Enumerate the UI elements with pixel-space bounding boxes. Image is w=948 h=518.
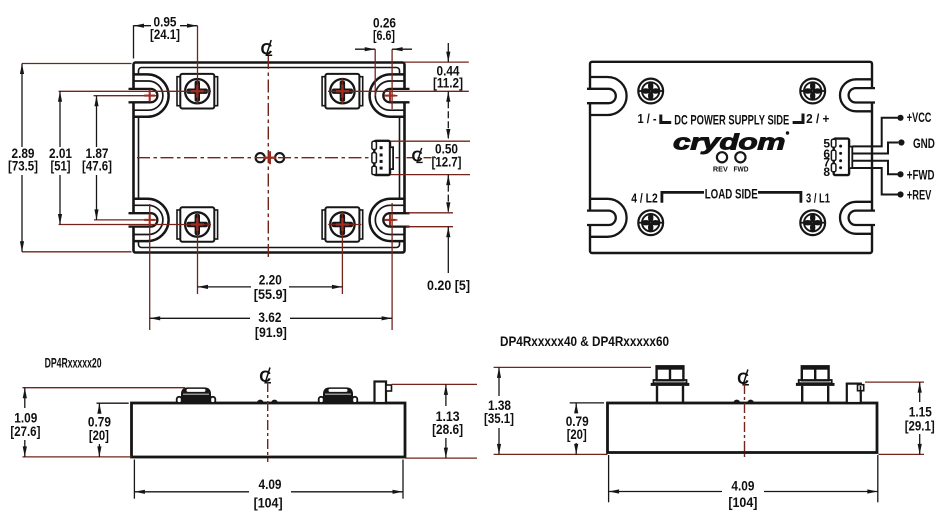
svg-text:[29.1]: [29.1] [905,417,935,433]
svg-text:[104]: [104] [254,495,283,511]
svg-text:[28.6]: [28.6] [432,421,463,437]
svg-text:DC POWER SUPPLY SIDE: DC POWER SUPPLY SIDE [674,112,789,128]
svg-text:[12.7]: [12.7] [432,153,462,169]
svg-text:[104]: [104] [728,494,757,510]
svg-text:[73.5]: [73.5] [8,158,38,174]
svg-text:+FWD: +FWD [907,167,935,182]
svg-text:crydom: crydom [673,129,785,154]
svg-text:[55.9]: [55.9] [254,286,287,302]
svg-text:3 / L1: 3 / L1 [806,190,830,205]
svg-text:+VCC: +VCC [907,110,932,125]
svg-text:[91.9]: [91.9] [255,324,287,340]
svg-text:DP4Rxxxxx20: DP4Rxxxxx20 [45,355,102,371]
svg-text:GND: GND [913,136,935,151]
svg-text:8: 8 [823,165,830,179]
svg-text:[27.6]: [27.6] [10,423,40,439]
svg-text:2 / +: 2 / + [806,111,830,126]
svg-text:[51]: [51] [51,158,71,174]
svg-text:FWD: FWD [734,165,750,174]
svg-text:[11.2]: [11.2] [433,74,463,90]
svg-text:[20]: [20] [567,426,587,442]
svg-text:DP4Rxxxxx40 & DP4Rxxxxx60: DP4Rxxxxx40 & DP4Rxxxxx60 [500,333,669,349]
svg-text:4 / L2: 4 / L2 [631,190,658,205]
svg-text:4.09: 4.09 [259,476,282,492]
svg-text:+REV: +REV [907,188,932,203]
svg-text:3.62: 3.62 [258,309,281,325]
svg-text:1 / -: 1 / - [638,111,657,126]
svg-text:0.20 [5]: 0.20 [5] [427,277,470,293]
svg-text:[47.6]: [47.6] [82,158,112,174]
svg-text:[20]: [20] [89,427,109,443]
svg-text:LOAD SIDE: LOAD SIDE [705,186,758,202]
svg-text:[6.6]: [6.6] [373,27,395,43]
svg-text:REV: REV [713,165,728,174]
svg-text:4.09: 4.09 [731,478,754,494]
svg-text:[24.1]: [24.1] [150,26,180,42]
svg-text:2.20: 2.20 [259,272,282,288]
svg-text:[35.1]: [35.1] [484,410,514,426]
